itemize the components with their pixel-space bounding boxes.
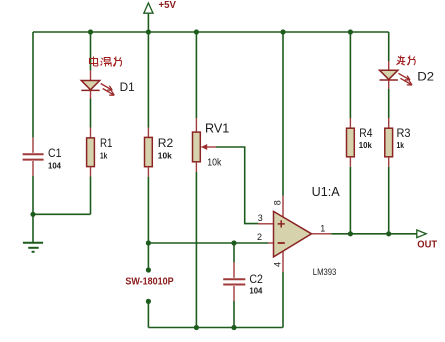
junction dot ground node [30,212,35,217]
wire RV1 wiper to U1 pin3 [216,147,259,224]
svg-text:8: 8 [273,200,283,205]
svg-text:4: 4 [272,262,282,267]
junction dot bottom rail / RV1 [194,325,199,330]
wire bottom rail [148,327,282,329]
junction dot bottom rail / C2 [231,325,236,330]
resistor R3 [385,118,411,167]
svg-text:104: 104 [48,160,61,170]
terminal OUT [417,230,437,251]
svg-text:3: 3 [258,213,263,223]
svg-text:1k: 1k [100,150,107,160]
junction dot C2 top [231,240,236,245]
junction dot R2 / pin2 node [146,240,151,245]
label 绿灯 (green lamp, drawn strokes) [397,56,416,66]
svg-text:SW-18010P: SW-18010P [125,276,173,287]
svg-text:RV1: RV1 [205,121,229,135]
svg-text:D1: D1 [120,80,135,94]
wire D1 to R1 [90,99,92,128]
svg-text:+5V: +5V [159,0,177,11]
wire U1 pin4 column to bottom rail [282,272,284,328]
svg-text:LM393: LM393 [313,267,337,277]
svg-text:2: 2 [257,232,262,242]
svg-text:R4: R4 [359,126,372,140]
capacitor C2 [223,243,263,301]
wire C1 node to R1 column [33,213,91,215]
wire D1 column upper [90,32,92,70]
svg-text:10k: 10k [359,140,372,150]
wire R1 bottom to ground wire [90,177,92,215]
wire U1 pin8 column [282,32,284,196]
svg-text:104: 104 [249,286,262,296]
svg-text:U1:A: U1:A [312,184,340,199]
wire RV1 bottom to bottom rail [195,172,197,328]
wire R2 bottom to inverting node [147,177,149,243]
svg-text:C1: C1 [48,146,62,160]
junction dot top rail / RV1 column [194,29,199,34]
resistor R1 [87,128,113,177]
svg-text:OUT: OUT [417,240,437,251]
resistor R4 [347,118,373,167]
junction dot top rail / D1 column [88,29,93,34]
wire C1 column [32,32,34,214]
wire D2 to R3 [388,89,390,118]
svg-text:10k: 10k [158,151,172,161]
wire C2 bottom to bottom rail [233,301,235,328]
wire R4 bottom to output [349,167,351,234]
wire D2 column upper [388,32,390,61]
junction dot top rail / U1 pin8 column [280,29,285,34]
wire inverting node to U1 pin2 [148,242,268,244]
wire R2 column upper [147,32,149,128]
svg-text:1k: 1k [397,140,405,150]
junction dot output / R4 [348,231,353,236]
svg-text:1: 1 [320,224,325,234]
LED D1 [81,70,135,98]
sensor SW-18010P [125,243,173,328]
wire R4 column upper [349,32,351,118]
potentiometer RV1 [193,118,230,172]
junction dot output / R3 [386,231,391,236]
label 电源灯 (power lamp, drawn strokes) [90,57,122,67]
svg-text:10k: 10k [207,156,222,168]
wire +5V top rail [33,31,389,33]
ground [23,214,43,252]
power terminal +5V [144,0,176,32]
wire U1 output to OUT [331,233,416,235]
svg-text:R3: R3 [397,126,411,140]
wire RV1 column upper [195,32,197,118]
svg-text:C2: C2 [249,272,263,286]
LED D2 [380,61,435,89]
svg-text:D2: D2 [417,70,434,84]
svg-text:R2: R2 [158,136,174,150]
op-amp U1:A LM393 [257,184,340,277]
svg-text:R1: R1 [100,136,113,150]
junction dot top rail / +5V R2 column [146,29,151,34]
wire R3 bottom to output [388,167,390,234]
resistor R2 [145,128,174,177]
junction dot top rail / R4 column [348,29,353,34]
capacitor C1 [23,137,62,176]
